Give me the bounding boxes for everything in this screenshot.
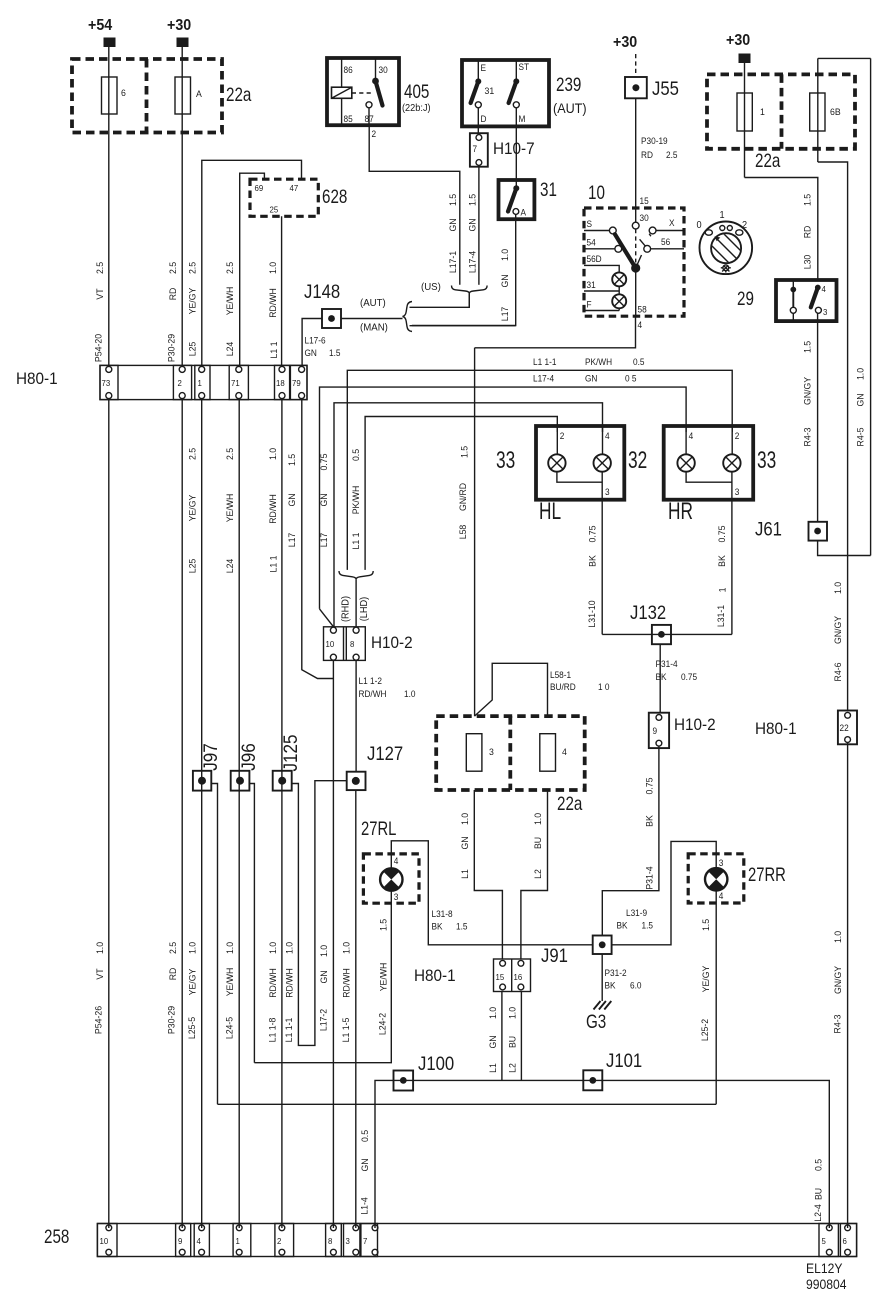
svg-text:L1 1: L1 1 [350,533,360,550]
svg-text:0.75: 0.75 [717,526,727,543]
svg-text:1.0: 1.0 [488,1007,498,1019]
svg-text:1.5: 1.5 [802,341,812,353]
svg-text:1: 1 [198,379,203,388]
wire rotor to terminal 58 [635,268,637,316]
lamp unit 27RL (dashed) [363,854,419,903]
wire HL pin 3 to J132 (L31-10 BK 0.75) [601,500,603,635]
svg-text:L31-8: L31-8 [432,909,453,919]
svg-text:H10-7: H10-7 [493,139,535,158]
svg-text:E: E [481,63,487,73]
svg-text:(AUT): (AUT) [360,298,386,309]
lamp unit 27RR (dashed) [688,854,744,903]
svg-text:1.5: 1.5 [467,194,477,206]
wire L24 H80-1 pin 71 through J96 to 258 pin 1 [238,400,240,1228]
svg-text:BK: BK [432,921,443,931]
svg-text:GN: GN [287,493,297,506]
svg-text:9: 9 [653,726,658,736]
svg-text:30: 30 [640,213,649,223]
svg-text:1.5: 1.5 [287,454,297,466]
svg-text:22a: 22a [557,792,583,814]
svg-text:31: 31 [540,178,557,200]
wire +30 through fuse 1 [744,63,746,178]
svg-text:1.5: 1.5 [802,194,812,206]
svg-text:RD: RD [641,150,653,160]
svg-text:1.0: 1.0 [855,368,865,380]
ignition switch unit 10 (dashed box) [584,208,684,316]
svg-text:31: 31 [587,280,596,290]
svg-text:L25: L25 [187,559,197,574]
wire H10-2 pin 10 bottom to 258 pin 8 (L17-2) [332,660,334,1228]
svg-text:22: 22 [840,723,849,733]
bus from brace (LHD) to HL pin 2 [365,417,557,570]
svg-text:P31-4: P31-4 [656,659,678,669]
svg-text:H10-2: H10-2 [371,633,413,652]
svg-text:F: F [587,299,592,309]
svg-text:GN: GN [467,218,477,231]
svg-text:RD/WH: RD/WH [268,288,278,318]
svg-text:RD/WH: RD/WH [359,689,387,699]
wire 628 pin 69 to H80-1 pin 71 (L24) [240,173,265,366]
svg-text:HR: HR [668,498,693,524]
HL lamp right [594,454,611,471]
svg-text:R4-3: R4-3 [832,1015,842,1034]
svg-text:L17: L17 [500,307,510,322]
switch 29 [776,280,837,321]
svg-text:R4-6: R4-6 [833,663,843,682]
svg-text:P30-19: P30-19 [641,136,668,146]
svg-text:J100: J100 [418,1053,454,1074]
junction J97 [193,771,211,791]
svg-text:BK: BK [717,555,727,567]
relay 405 (22b:J) [327,58,399,125]
wire P54-26 VT 1.0 H80-1 pin 73 to 258 pin 10 [108,400,110,1228]
wire L17 from switch 31 A to brace (MAN) [412,214,516,325]
link lamp1 to lamp2 [618,286,620,294]
far right riser R4-5 [870,58,872,555]
wire J132 down to H10-2 pin 9 (P31-4 BK 0.75) [659,644,661,713]
branch J97 to bottom bus [211,784,217,1105]
svg-text:1: 1 [720,210,725,221]
svg-text:1.0: 1.0 [268,262,278,274]
wire L1 1 H80-1 pin 18 through J125 to 258 pin 2 [281,400,283,1228]
dashed wire +30 to J55 [635,54,637,76]
connector H80-1 pins 15/16 [494,959,531,992]
svg-text:J97: J97 [200,743,221,771]
headlamp unit HR [664,426,754,500]
svg-text:BU: BU [813,1188,823,1200]
junction J61 [809,522,828,541]
svg-text:1.0: 1.0 [268,448,278,460]
ground G3 [594,1001,612,1010]
brace merging L17-1 / L17-4 [452,286,488,294]
svg-text:6: 6 [843,1237,848,1246]
svg-text:L30: L30 [802,255,812,270]
connector strip 258 [97,1224,856,1257]
svg-text:+30: +30 [167,18,191,35]
wire J91 to 27RR pin 3 (L31-9 BK 1.5) [612,841,717,944]
svg-text:G3: G3 [586,1010,606,1032]
svg-text:2.5: 2.5 [225,448,235,460]
svg-text:L17-4: L17-4 [467,251,477,273]
svg-text:BU/RD: BU/RD [550,682,576,692]
svg-text:15: 15 [496,973,505,982]
fuse 4 [540,734,567,772]
bottom bus YE/GY J97 to 27RR [218,1103,717,1105]
svg-text:BU: BU [533,837,543,849]
terminal 56D with lamp feed [584,265,619,272]
connector H80-1 pin 22 [838,711,857,745]
svg-text:H80-1: H80-1 [414,966,456,985]
svg-text:BK: BK [644,815,654,827]
svg-text:2.5: 2.5 [225,262,235,274]
svg-text:J55: J55 [652,78,679,99]
svg-text:L1 1-5: L1 1-5 [341,1018,351,1043]
svg-text:L25-5: L25-5 [187,1017,197,1039]
svg-text:5: 5 [822,1237,827,1246]
node +54 supply [88,18,116,47]
svg-text:56D: 56D [587,254,602,264]
svg-text:2.5: 2.5 [187,262,197,274]
wire L17-4 H10-7 down to brace [478,165,480,284]
svg-text:0 5: 0 5 [625,373,637,383]
svg-text:HL: HL [539,498,561,524]
svg-text:2.5: 2.5 [666,150,678,160]
svg-text:S: S [587,219,593,229]
svg-text:P31-4: P31-4 [644,866,654,889]
svg-text:L24-2: L24-2 [377,1013,387,1035]
svg-text:+30: +30 [613,35,637,52]
svg-text:YE/WH: YE/WH [225,494,235,523]
wire J148 right to option brace [341,318,403,320]
svg-text:628: 628 [322,185,347,207]
svg-text:56: 56 [661,237,670,247]
HR internal ground link pin 3 [686,472,732,483]
wire fuse 3 to H80-1 pin 15 (L1 GN 1.0) [474,790,502,959]
svg-text:71: 71 [231,379,240,388]
svg-text:J61: J61 [755,519,782,540]
svg-text:8: 8 [350,640,355,649]
svg-text:J96: J96 [238,743,259,771]
svg-text:1.5: 1.5 [459,446,469,458]
junction J96 [231,771,250,791]
svg-text:2.5: 2.5 [168,262,178,274]
svg-text:3: 3 [719,858,724,868]
switch 31 [499,180,535,219]
wire fuse 6B to riser R4-6 [818,162,848,711]
wire J127 to 258 pin 3 (L1 1-5) [355,790,357,1228]
svg-text:0.75: 0.75 [681,672,697,682]
svg-text:9: 9 [178,1237,183,1246]
svg-text:4: 4 [605,431,610,441]
svg-text:VT: VT [95,288,105,300]
junction J55 [625,77,647,98]
svg-text:47: 47 [290,184,299,193]
svg-text:RD: RD [168,967,178,980]
fuse A [175,77,203,114]
HR lamp right [723,454,740,471]
svg-text:1.5: 1.5 [642,920,654,930]
wire top link to far right riser [818,57,871,59]
wire 628 pin 47 to H80-1 pin 1 (L25) [202,160,302,366]
svg-text:4: 4 [197,1237,202,1246]
svg-text:J91: J91 [541,945,568,966]
svg-text:RD/WH: RD/WH [341,968,351,998]
svg-text:258: 258 [44,1225,69,1247]
svg-text:VT: VT [95,968,105,980]
svg-text:GN: GN [448,218,458,231]
svg-text:H80-1: H80-1 [16,369,58,388]
svg-text:EL12Y: EL12Y [806,1260,843,1276]
junction J100 [394,1071,414,1091]
svg-text:85: 85 [344,114,353,124]
svg-text:(MAN): (MAN) [360,322,388,333]
svg-text:1.0: 1.0 [284,942,294,954]
svg-text:4: 4 [562,747,567,757]
control unit 628 (dashed) [250,179,318,216]
jumper L58-1 BU/RD to fuse 4 [475,663,548,716]
svg-text:31: 31 [485,86,495,96]
svg-text:3: 3 [489,747,494,757]
junction J132 [652,625,671,644]
diagonal L17-4 into H10-2 pin 10 [320,609,334,627]
svg-text:22a: 22a [755,149,781,171]
rotor dot and lever [631,263,640,272]
svg-text:(LHD): (LHD) [359,597,370,622]
svg-text:A: A [521,207,527,217]
junction J91 [593,936,612,955]
svg-text:RD/WH: RD/WH [268,494,278,524]
svg-text:X: X [669,218,675,228]
wire 239 M to switch 31 [515,126,517,187]
svg-text:239: 239 [556,73,581,95]
svg-text:10: 10 [100,1237,109,1246]
connector strip H80-1 [100,365,307,399]
wire HR pin 3 to J132 (L31-1 BK 0.75) [731,500,733,635]
svg-text:(RHD): (RHD) [340,596,351,622]
svg-text:GN: GN [305,348,317,358]
svg-text:RD: RD [802,225,812,238]
wire switch 29 pin 3 down to J61 (R4-3 GN/GY 1.5) [817,313,819,522]
svg-text:1.0: 1.0 [500,249,510,261]
svg-text:GN: GN [319,970,329,983]
svg-text:L58-1: L58-1 [550,670,571,680]
connector H10-7 pin 7 [470,133,488,167]
svg-text:BU: BU [507,1036,517,1048]
svg-text:A: A [196,89,203,99]
svg-text:H80-1: H80-1 [755,719,797,738]
wire +54 to fuse 6 to H80-1 pin 73 [108,47,110,366]
svg-text:L1-4: L1-4 [359,1197,369,1214]
fuse 1 [737,93,765,131]
wire relay 405 pin 2 to L17-1 [369,125,460,285]
wire 628 pin 25 to H80-1 pin 18 (L1 1) [281,216,283,366]
svg-text:86: 86 [344,65,353,75]
svg-text:2: 2 [277,1237,282,1246]
svg-text:PK/WH: PK/WH [585,357,612,367]
svg-text:3: 3 [735,487,740,497]
svg-text:27RR: 27RR [748,864,786,885]
svg-text:YE/GY: YE/GY [700,966,710,993]
dashed link 30 to rotor [635,229,637,263]
svg-text:GN: GN [855,393,865,406]
contact hook near X [640,239,646,246]
svg-text:6.0: 6.0 [630,980,642,990]
svg-text:0.5: 0.5 [813,1159,823,1171]
wire 27RR pin 4 down to bottom bus (L25-2 YE/GY 1.5) [715,891,717,1105]
svg-text:YE/WH: YE/WH [225,968,235,997]
svg-text:L1 1-1: L1 1-1 [533,357,557,367]
terminal 56 [644,245,651,252]
fuse 3 [466,734,494,772]
svg-text:RD/WH: RD/WH [284,968,294,998]
key position indicator [697,210,753,274]
svg-text:L17: L17 [319,533,329,548]
wire L58 GN/RD down to fuse 3 [474,348,476,716]
svg-text:32: 32 [628,447,647,473]
fuse box 22a (fuses 3/4) [436,716,585,790]
svg-text:L24: L24 [225,342,235,357]
fuse 6B [810,93,841,131]
svg-text:GN/GY: GN/GY [802,377,812,405]
wire J55 to ignition switch terminal 30 (P30-19 RD 2.5) [635,98,637,222]
brace RHD/LHD merge [339,571,373,579]
option brace left [403,302,413,332]
svg-text:1.0: 1.0 [533,813,543,825]
svg-text:ST: ST [519,62,530,72]
wire option MAN branch [410,325,516,327]
svg-text:M: M [519,114,526,124]
svg-text:29: 29 [737,287,754,309]
svg-text:10: 10 [588,181,605,203]
svg-text:L2: L2 [533,869,543,879]
svg-text:22a: 22a [226,83,252,105]
svg-text:GN: GN [488,1035,498,1048]
wire HL/HR grounds to J132 [602,633,732,635]
junction J101 [583,1070,602,1090]
svg-text:1: 1 [717,588,727,593]
svg-text:0.75: 0.75 [587,526,597,543]
svg-text:1.0: 1.0 [268,942,278,954]
HL internal ground link pin 3 [557,472,602,483]
svg-text:L58: L58 [458,525,468,540]
svg-text:1.0: 1.0 [319,945,329,957]
wire L17 GN 1.5 pin 79 wrap to H10-2 pin 10 underside [302,400,334,679]
svg-text:4: 4 [638,320,643,330]
svg-text:P54-26: P54-26 [93,1006,103,1034]
svg-text:L25-2: L25-2 [700,1019,710,1041]
svg-text:2.5: 2.5 [95,262,105,274]
svg-text:BK: BK [656,672,667,682]
svg-text:1.5: 1.5 [448,194,458,206]
svg-text:33: 33 [757,447,776,473]
svg-text:15: 15 [640,196,649,206]
svg-text:L2: L2 [507,1063,517,1073]
svg-text:GN: GN [500,274,510,287]
svg-text:1.0: 1.0 [341,942,351,954]
svg-text:J148: J148 [304,281,340,302]
bus from H10-2 pin 10 to HL pin 4 [334,403,603,627]
svg-text:18: 18 [276,379,285,388]
wire +30 to fuse A to H80-1 pin 2 [181,47,183,366]
svg-text:0: 0 [697,220,702,231]
svg-text:J127: J127 [367,743,403,764]
headlamp unit HL [536,426,624,500]
wire 239 D to H10-7 [477,126,479,134]
svg-text:L1 1: L1 1 [268,556,278,573]
svg-text:L17-4: L17-4 [533,373,554,383]
junction J127 [347,772,366,790]
connector H10-2 pins 10 / 8 [324,627,366,661]
svg-text:4: 4 [394,856,399,866]
svg-text:L25: L25 [187,342,197,357]
svg-text:BK: BK [605,980,616,990]
svg-text:27RL: 27RL [361,818,396,839]
svg-text:1.0: 1.0 [404,689,416,699]
svg-text:L24-5: L24-5 [224,1017,234,1039]
svg-text:L31-1: L31-1 [716,605,726,627]
svg-text:7: 7 [363,1237,368,1246]
svg-text:L2-4: L2-4 [813,1204,823,1221]
branch J125 U-turn to J127 (L1 1-1) [292,781,347,1046]
svg-text:GN/RD: GN/RD [458,483,468,512]
svg-text:1: 1 [236,1237,241,1246]
svg-text:J101: J101 [606,1050,642,1071]
svg-text:33: 33 [496,447,515,473]
svg-text:10: 10 [326,640,335,649]
svg-text:YE/GY: YE/GY [187,495,197,522]
svg-text:1.5: 1.5 [700,919,710,931]
terminal 31 line [584,290,619,292]
wire L25 H80-1 pin 1 through J97 to 258 pin 4 [201,400,203,1228]
warning lamp 2 [612,294,626,308]
svg-text:16: 16 [514,973,523,982]
wire option AUT branch [410,294,470,308]
svg-text:3: 3 [823,308,828,317]
svg-text:P30-29: P30-29 [166,334,176,362]
warning lamp 1 [612,272,626,286]
wire P30-29 RD 2.5 H80-1 pin 2 to 258 pin 9 [181,400,183,1228]
svg-text:L1 1-8: L1 1-8 [267,1018,277,1043]
svg-text:2: 2 [735,431,740,441]
svg-text:L17: L17 [287,533,297,548]
wire H80-1 pin 15 to bus (L1 GN 1.0) [501,992,503,1081]
svg-text:25: 25 [270,205,279,214]
svg-text:1.5: 1.5 [378,919,388,931]
branch J96 to 27RL supply [249,784,254,1063]
junction J125 [273,771,292,791]
svg-text:58: 58 [638,304,647,314]
svg-text:P31-2: P31-2 [605,968,627,978]
wire ignition 58/4 to L58 drop [475,316,636,348]
svg-text:BK: BK [617,920,628,930]
svg-text:0.5: 0.5 [350,449,360,461]
svg-text:4: 4 [689,431,694,441]
svg-text:4: 4 [822,285,827,294]
wire brace to H10-2 pin 8 [355,579,357,627]
switch unit 239 (AUT) [462,60,549,126]
svg-text:L1 1-1: L1 1-1 [284,1018,294,1043]
svg-text:D: D [481,114,487,124]
svg-text:1.5: 1.5 [456,921,468,931]
terminal 54 [615,245,622,252]
wire fuse 4 to H80-1 pin 16 (L2 BU 1.0) [521,790,548,959]
svg-text:2: 2 [372,129,377,139]
bottom bus L1/L2 with pin7/pin5 drops [375,1080,829,1228]
svg-text:8: 8 [328,1237,333,1246]
wire brace center down [468,294,470,308]
svg-text:1.5: 1.5 [329,348,341,358]
svg-text:P30-29: P30-29 [166,1006,176,1034]
